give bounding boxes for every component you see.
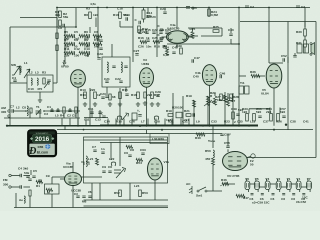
svg-text:V3: V3 bbox=[265, 177, 269, 181]
wire bbox=[4, 117, 80, 119]
svg-text:L5: L5 bbox=[55, 114, 59, 118]
svg-text:C5: C5 bbox=[33, 169, 37, 173]
cap C40 bbox=[229, 34, 232, 36]
svg-text:Tone: Tone bbox=[208, 139, 215, 143]
coil L1b bbox=[20, 66, 21, 73]
resistor R25 vert bbox=[191, 32, 194, 39]
ground bbox=[150, 102, 154, 106]
svg-text:R15: R15 bbox=[122, 88, 128, 92]
svg-text:#3·C5#: #3·C5# bbox=[296, 200, 306, 204]
tube V1 UCC85 bbox=[148, 158, 163, 180]
svg-text:C36: C36 bbox=[191, 6, 197, 10]
wire bbox=[110, 143, 112, 161]
heater tube V6 bbox=[245, 181, 250, 190]
cap C8 bbox=[63, 24, 65, 27]
junction bbox=[43, 110, 45, 112]
resistor tall bbox=[142, 10, 145, 19]
svg-text:R23: R23 bbox=[224, 120, 230, 124]
wire bbox=[192, 8, 194, 11]
wire bbox=[119, 21, 121, 27]
wire bbox=[63, 60, 65, 66]
wire bbox=[64, 27, 66, 62]
svg-text:C63: C63 bbox=[140, 148, 146, 152]
resistor R27 bbox=[220, 94, 223, 101]
wire stub bbox=[99, 110, 101, 118]
filter box bbox=[45, 184, 60, 194]
fm bottom bus2 bbox=[84, 205, 169, 207]
wire bbox=[146, 87, 148, 126]
cap heater bbox=[251, 194, 254, 195]
svg-text:R18: R18 bbox=[116, 120, 122, 124]
svg-text:UL84: UL84 bbox=[261, 92, 269, 96]
svg-text:Sw1: Sw1 bbox=[196, 194, 202, 198]
wire stub bbox=[69, 119, 71, 126]
terminal bbox=[8, 115, 10, 117]
wire bbox=[201, 35, 222, 37]
junction bbox=[146, 125, 148, 127]
svg-text:R26: R26 bbox=[276, 120, 282, 124]
junction bbox=[139, 125, 141, 127]
junction bbox=[268, 7, 270, 9]
svg-text:300: 300 bbox=[1, 110, 6, 114]
zig fm c bbox=[36, 180, 43, 183]
svg-text:1k0: 1k0 bbox=[210, 100, 215, 104]
badge globe bbox=[45, 144, 50, 149]
svg-text:C28: C28 bbox=[154, 120, 160, 124]
svg-text:L7: L7 bbox=[141, 120, 145, 124]
row caps b bbox=[140, 40, 147, 43]
wire bbox=[208, 8, 210, 18]
fuse F2 bbox=[251, 154, 255, 158]
svg-text:R3: R3 bbox=[86, 7, 90, 11]
svg-text:39k: 39k bbox=[55, 13, 60, 17]
output transformer Tr2 bbox=[297, 44, 302, 53]
svg-text:R3: R3 bbox=[42, 71, 46, 75]
wire stub bbox=[61, 119, 63, 126]
svg-text:R52: R52 bbox=[114, 191, 120, 195]
svg-text:C37: C37 bbox=[263, 120, 269, 124]
wire stub bbox=[155, 119, 157, 126]
resistor R2 bbox=[59, 11, 62, 18]
wire bbox=[176, 8, 178, 29]
svg-text:R53: R53 bbox=[142, 191, 148, 195]
wire bbox=[146, 130, 148, 134]
badge diamond left bbox=[30, 137, 33, 140]
bandswitch box bbox=[27, 75, 53, 92]
wire stub bbox=[131, 119, 133, 126]
svg-text:C3: C3 bbox=[44, 112, 48, 116]
svg-text:6,3v: 6,3v bbox=[163, 53, 169, 57]
svg-text:C#: C# bbox=[74, 192, 78, 196]
wire bbox=[212, 165, 214, 191]
wire bbox=[64, 126, 66, 130]
svg-text:V1b: V1b bbox=[164, 160, 170, 164]
wire stub bbox=[107, 119, 109, 126]
wire bbox=[192, 28, 194, 32]
svg-text:C4: C4 bbox=[18, 167, 22, 171]
cap C7 bbox=[12, 109, 14, 112]
svg-text:R10: R10 bbox=[113, 13, 119, 17]
cap C36 bbox=[186, 7, 190, 9]
svg-text:54k: 54k bbox=[24, 171, 29, 175]
wire bbox=[143, 19, 145, 23]
wire bbox=[304, 8, 306, 28]
wire bbox=[207, 96, 209, 126]
svg-text:M: M bbox=[47, 191, 50, 195]
wire bbox=[221, 28, 223, 36]
svg-text:L1: L1 bbox=[24, 61, 28, 65]
svg-text:R46: R46 bbox=[221, 178, 227, 182]
svg-text:C40: C40 bbox=[193, 75, 199, 79]
cluster C49 bbox=[232, 112, 235, 119]
resistor R14 bbox=[94, 92, 97, 99]
svg-text:UF80: UF80 bbox=[61, 65, 69, 69]
wire bbox=[77, 87, 79, 126]
junction bbox=[132, 7, 134, 9]
wire bbox=[227, 93, 229, 97]
resistor bbox=[56, 45, 58, 51]
svg-text:470: 470 bbox=[37, 87, 42, 91]
junction bbox=[97, 7, 99, 9]
cap C2A bbox=[97, 58, 100, 60]
wire bbox=[249, 108, 270, 110]
wire stub bbox=[85, 119, 87, 126]
wire bbox=[56, 8, 58, 18]
wire bbox=[95, 18, 97, 28]
junction bbox=[156, 7, 158, 9]
wire bbox=[269, 108, 271, 114]
wire bbox=[214, 93, 216, 96]
wire bbox=[164, 8, 166, 11]
cap T2b bbox=[124, 66, 127, 68]
wire heater link bbox=[259, 186, 265, 188]
wire heater link bbox=[301, 186, 307, 188]
svg-text:10k: 10k bbox=[217, 98, 222, 102]
tube V2 UF80 bbox=[71, 70, 86, 87]
cap in box bbox=[47, 80, 50, 82]
ground bbox=[83, 102, 87, 106]
junction bbox=[238, 125, 240, 127]
svg-text:C26: C26 bbox=[138, 45, 144, 49]
svg-text:R30: R30 bbox=[296, 30, 302, 34]
wire stub bbox=[188, 119, 190, 126]
wire bbox=[56, 18, 58, 28]
terminal bbox=[8, 110, 10, 112]
wire bbox=[72, 162, 74, 173]
wire bbox=[125, 87, 127, 92]
badge lcd bbox=[33, 135, 52, 143]
wire bbox=[106, 87, 108, 95]
svg-text:R47: R47 bbox=[243, 196, 249, 200]
wire bbox=[53, 82, 57, 84]
svg-text:C27: C27 bbox=[134, 49, 140, 53]
svg-text:C5: C5 bbox=[72, 114, 76, 118]
zig bbox=[193, 100, 196, 107]
wire mid thick bus bbox=[7, 125, 258, 127]
svg-text:100: 100 bbox=[74, 54, 79, 58]
wire bbox=[29, 196, 31, 205]
coil left fm bbox=[86, 156, 87, 166]
trimmer2 bbox=[44, 82, 49, 88]
cap C25 bbox=[125, 94, 128, 96]
svg-text:1M0: 1M0 bbox=[84, 45, 90, 49]
cap bbox=[82, 196, 85, 198]
wire heater lead bbox=[287, 179, 289, 182]
resistor R36 zigzag bbox=[251, 74, 260, 77]
wire bbox=[56, 60, 58, 83]
wire stub bbox=[57, 108, 59, 111]
cap bbox=[56, 110, 59, 112]
svg-text:R18: R18 bbox=[154, 45, 160, 49]
svg-text:R13: R13 bbox=[80, 88, 86, 92]
svg-text:SCHEMATIC: SCHEMATIC bbox=[36, 132, 49, 135]
badge top microtext bbox=[29, 131, 54, 134]
wire bbox=[257, 75, 265, 77]
resistor R13 bbox=[84, 92, 87, 99]
wire bbox=[212, 126, 214, 148]
svg-text:L30 R39: L30 R39 bbox=[152, 137, 164, 141]
wire bbox=[273, 88, 275, 126]
resistor fm2 bbox=[139, 190, 142, 197]
wire heater lead bbox=[266, 179, 268, 182]
svg-text:C45: C45 bbox=[172, 46, 178, 50]
resistor bbox=[56, 33, 58, 39]
cap bbox=[68, 110, 71, 112]
wire bbox=[167, 43, 239, 45]
cap fm d bbox=[38, 180, 41, 182]
svg-text:C38: C38 bbox=[290, 120, 296, 124]
cap bbox=[139, 21, 141, 24]
svg-text:1n0: 1n0 bbox=[94, 37, 100, 41]
wire stub bbox=[75, 113, 77, 118]
wire bbox=[51, 194, 53, 208]
svg-text:1k: 1k bbox=[146, 36, 150, 40]
svg-text:2k2: 2k2 bbox=[147, 93, 152, 97]
coil curl bbox=[117, 116, 121, 120]
cap heater bbox=[272, 194, 275, 195]
wire stub bbox=[91, 110, 93, 118]
wire bbox=[156, 8, 158, 58]
wire heater link bbox=[250, 183, 255, 185]
svg-text:C19: C19 bbox=[124, 13, 130, 17]
svg-text:2k0: 2k0 bbox=[266, 110, 271, 114]
wire bbox=[269, 62, 283, 64]
wire bbox=[82, 176, 103, 178]
cap bbox=[13, 80, 16, 82]
svg-text:R19: R19 bbox=[186, 94, 192, 98]
wire stub bbox=[171, 119, 173, 126]
wire bbox=[176, 44, 178, 48]
resistor R28 bbox=[230, 94, 233, 101]
wire bbox=[10, 82, 27, 84]
wire bbox=[188, 27, 222, 29]
wire bbox=[111, 44, 113, 57]
IF can T2 bbox=[102, 57, 130, 87]
wire bbox=[182, 96, 184, 126]
svg-text:1M: 1M bbox=[162, 45, 167, 49]
wire bbox=[39, 92, 41, 98]
cap bbox=[146, 16, 149, 18]
junction bbox=[83, 129, 85, 131]
svg-text:5k0: 5k0 bbox=[256, 110, 261, 114]
svg-text:5k6: 5k6 bbox=[64, 37, 69, 41]
svg-text:C6: C6 bbox=[94, 30, 98, 34]
ground bbox=[118, 102, 122, 106]
svg-text:50: 50 bbox=[250, 163, 254, 167]
wire bbox=[207, 190, 222, 192]
wire bbox=[248, 109, 250, 114]
svg-text:Ae: Ae bbox=[19, 198, 23, 202]
svg-text:C31: C31 bbox=[182, 120, 188, 124]
wire stub bbox=[39, 111, 41, 118]
wire heater feed bbox=[246, 157, 316, 159]
svg-text:1n: 1n bbox=[101, 147, 105, 151]
wire bbox=[287, 22, 289, 130]
zig R51 bbox=[126, 145, 133, 148]
svg-text:R16: R16 bbox=[131, 93, 137, 97]
svg-text:C18: C18 bbox=[117, 7, 123, 11]
ground bbox=[136, 102, 140, 106]
wire fm internal bbox=[84, 139, 168, 141]
cap bbox=[105, 96, 108, 98]
wire bbox=[19, 69, 21, 75]
svg-text:C23: C23 bbox=[100, 92, 106, 96]
svg-text:C22: C22 bbox=[115, 77, 121, 81]
wire bbox=[132, 8, 134, 63]
wire top-right bbox=[240, 21, 316, 23]
wire bbox=[279, 108, 281, 114]
cap bbox=[28, 179, 31, 181]
junction bbox=[56, 7, 58, 9]
wire bbox=[52, 176, 65, 178]
agc row3 bbox=[64, 51, 73, 54]
trimmer diag bbox=[116, 168, 126, 179]
svg-text:C8: C8 bbox=[22, 106, 26, 110]
cap bbox=[99, 40, 102, 42]
agc row1 bbox=[64, 34, 73, 37]
resistor bbox=[29, 190, 31, 196]
coil curl bbox=[154, 116, 158, 120]
svg-text:2: 2 bbox=[234, 120, 236, 124]
switch Sw1 bbox=[197, 190, 199, 192]
svg-text:0,5M: 0,5M bbox=[211, 13, 218, 17]
cap bbox=[138, 115, 141, 117]
wire heater link bbox=[291, 183, 296, 185]
wire bbox=[172, 93, 174, 126]
wire bbox=[87, 53, 89, 57]
svg-text:R40: R40 bbox=[195, 136, 201, 140]
wire bbox=[230, 39, 232, 44]
cap fm a bbox=[26, 176, 29, 178]
svg-text:2016: 2016 bbox=[35, 136, 50, 143]
svg-text:R6: R6 bbox=[84, 30, 88, 34]
resistor bbox=[196, 133, 205, 136]
svg-text:C29: C29 bbox=[155, 90, 161, 94]
svg-text:R5: R5 bbox=[64, 30, 68, 34]
wire bbox=[15, 205, 17, 208]
wire bbox=[72, 186, 74, 208]
svg-text:100: 100 bbox=[178, 106, 183, 110]
cap C61 bbox=[128, 155, 131, 157]
svg-text:V6 UY85: V6 UY85 bbox=[227, 174, 240, 178]
wire stub bbox=[123, 119, 125, 126]
resistor R10 bbox=[119, 12, 122, 19]
wire heater link bbox=[281, 186, 286, 188]
wire bbox=[44, 110, 80, 112]
resistor R31 bbox=[304, 40, 307, 47]
wire right vertical rail bbox=[315, 22, 317, 158]
coil L4 bbox=[27, 106, 28, 116]
wire bbox=[89, 88, 91, 126]
svg-text:R1: R1 bbox=[36, 184, 40, 188]
resistor R24 bbox=[208, 9, 211, 16]
svg-text:C11: C11 bbox=[88, 107, 94, 111]
wire bbox=[23, 186, 30, 188]
svg-text:R54: R54 bbox=[136, 161, 142, 165]
coil bbox=[24, 196, 25, 203]
cap bbox=[101, 152, 104, 154]
junction bbox=[77, 125, 79, 127]
svg-text:C35: C35 bbox=[237, 120, 243, 124]
transformer Tr1 bbox=[239, 86, 244, 94]
wire bbox=[162, 36, 167, 38]
svg-text:T1: T1 bbox=[36, 105, 40, 109]
wire bbox=[294, 53, 296, 55]
cluster R9 C39 bbox=[166, 48, 169, 55]
svg-text:50: 50 bbox=[74, 45, 78, 49]
resistor R47 bbox=[236, 194, 245, 197]
zig bbox=[136, 158, 143, 161]
svg-text:C22: C22 bbox=[152, 28, 158, 32]
wire stub bbox=[69, 108, 71, 111]
svg-text:M6: M6 bbox=[82, 200, 87, 204]
badge diamond right bbox=[51, 137, 54, 140]
svg-text:220: 220 bbox=[159, 28, 164, 32]
svg-text:V4: V4 bbox=[296, 177, 300, 181]
wire stub bbox=[147, 119, 149, 126]
svg-text:10n: 10n bbox=[146, 45, 151, 49]
svg-text:C11: C11 bbox=[84, 118, 90, 122]
wire bbox=[227, 149, 229, 152]
caps row fm bbox=[102, 171, 105, 173]
wire stub bbox=[164, 119, 166, 126]
thermistor bbox=[222, 182, 229, 185]
svg-text:L3: L3 bbox=[35, 71, 39, 75]
cap chain left of V4a bbox=[160, 29, 163, 31]
junction bbox=[285, 124, 287, 126]
wire bbox=[60, 178, 65, 180]
cap bbox=[90, 112, 93, 114]
junction bbox=[238, 7, 240, 9]
svg-text:V6: V6 bbox=[245, 177, 249, 181]
cap bbox=[50, 110, 53, 112]
wire bbox=[287, 57, 289, 63]
wire bbox=[99, 183, 101, 200]
svg-text:2n2: 2n2 bbox=[74, 37, 80, 41]
ground bbox=[108, 102, 112, 106]
wire am bbox=[14, 110, 26, 112]
cap C58 bbox=[226, 146, 229, 148]
svg-text:C49: C49 bbox=[231, 107, 237, 111]
cap fm in1 bbox=[20, 174, 22, 177]
svg-text:R36: R36 bbox=[250, 70, 256, 74]
heater tube V3 bbox=[265, 181, 270, 190]
wire heater lead bbox=[245, 179, 247, 182]
junction bbox=[75, 26, 77, 28]
junction bbox=[248, 125, 250, 127]
junction bbox=[25, 110, 27, 112]
resistor bbox=[63, 107, 65, 113]
